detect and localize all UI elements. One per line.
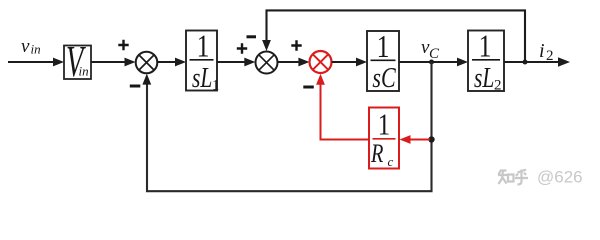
wire S2 to red summing junction S3 — [278, 61, 300, 63]
wire 1/sL1 to summing junction S2 — [217, 61, 245, 63]
wire Vin to summing junction S1 — [91, 61, 125, 63]
arrowhead up into S1 bottom — [142, 74, 151, 85]
svg-text:in: in — [79, 64, 89, 79]
svg-text:1: 1 — [377, 29, 390, 64]
svg-text:i: i — [539, 40, 545, 62]
svg-text:1: 1 — [197, 29, 210, 64]
node vin input label — [21, 36, 41, 57]
wire 1/sL2 to output — [504, 61, 559, 63]
summing junction S2 — [256, 52, 278, 74]
svg-text:sL: sL — [192, 61, 212, 94]
arrowhead into 1/sL2 — [457, 58, 468, 67]
block 1/sL2 — [468, 29, 504, 94]
bottom feedback wire from vC down, left, and up into S1 — [147, 62, 432, 191]
wire input to Vin block — [8, 61, 54, 63]
block Vin — [64, 36, 91, 85]
arrowhead into S2 — [244, 58, 255, 67]
watermark zhihu logo glyphs — [498, 170, 528, 185]
node vC junction dot — [429, 60, 434, 65]
svg-text:c: c — [388, 154, 394, 169]
red tap wire toward 1/Rc — [409, 139, 430, 141]
svg-text:2: 2 — [494, 78, 502, 94]
minus sign below S1 — [130, 85, 141, 88]
red feedback wire from 1/Rc up into S3 — [321, 85, 370, 140]
plus sign before S2 — [237, 43, 247, 53]
arrowhead into Vin — [53, 58, 64, 67]
block 1/Rc (red) — [369, 108, 399, 170]
arrowhead into S3 — [298, 58, 309, 67]
plus sign before S3 — [291, 40, 301, 50]
arrowhead into 1/sC — [356, 58, 367, 67]
wire S1 to block 1/sL1 — [157, 61, 176, 63]
node i2 output label — [539, 40, 554, 64]
arrowhead into 1/sL1 — [175, 58, 186, 67]
plus sign at S1 — [118, 40, 128, 50]
block 1/sC — [367, 29, 399, 93]
red arrowhead left into 1/Rc — [400, 135, 411, 144]
svg-text:R: R — [370, 140, 383, 169]
svg-text:1: 1 — [479, 29, 492, 64]
top feedback wire from output node down into S2 — [267, 10, 526, 62]
arrowhead into S1 — [125, 58, 136, 67]
minus sign above S2 — [247, 35, 257, 38]
minus sign below S3 — [303, 86, 314, 89]
svg-text:v: v — [21, 36, 30, 57]
svg-text:sC: sC — [372, 61, 396, 94]
junction dot at top feedback tap — [523, 60, 528, 65]
svg-text:sL: sL — [474, 61, 494, 94]
wire 1/sC to block 1/sL2 — [399, 61, 458, 63]
arrowhead down into S2 top — [262, 40, 271, 51]
red arrowhead up into S3 bottom — [316, 74, 325, 85]
node vC label — [421, 37, 440, 62]
svg-text:C: C — [429, 46, 440, 62]
svg-text:1: 1 — [378, 108, 390, 142]
svg-text:in: in — [31, 42, 41, 57]
output arrowhead — [558, 57, 570, 66]
svg-text:1: 1 — [212, 78, 220, 94]
svg-text:2: 2 — [546, 48, 554, 64]
junction dot on vC drop at red tap — [428, 136, 434, 142]
wire S3 to block 1/sC — [332, 61, 357, 63]
svg-text:@626: @626 — [537, 168, 583, 187]
summing junction S3 (red) — [310, 51, 332, 73]
summing junction S1 — [136, 52, 158, 74]
block 1/sL1 — [186, 29, 220, 94]
